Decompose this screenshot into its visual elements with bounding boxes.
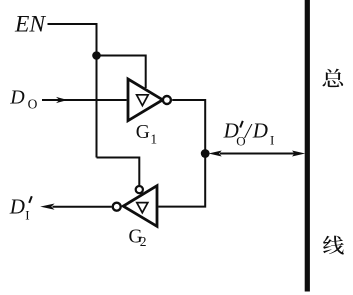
label DI' bbox=[9, 195, 32, 223]
bidirectional arrow to bus bbox=[220, 153, 295, 155]
junction EN node bbox=[92, 51, 101, 60]
svg-text:/: / bbox=[244, 119, 253, 143]
wire DO input bbox=[42, 99, 127, 101]
svg-text:I: I bbox=[25, 208, 29, 223]
G2 output bubble bbox=[113, 203, 121, 211]
label G2 bbox=[129, 226, 147, 249]
svg-text:D: D bbox=[252, 119, 268, 143]
G1 tri-state symbol bbox=[137, 95, 149, 106]
G2 tri-state symbol bbox=[137, 203, 148, 213]
wire EN to G1 enable bbox=[97, 56, 146, 89]
tri-state buffer G1 triangle bbox=[128, 79, 163, 121]
arrowhead DI output bbox=[40, 204, 54, 210]
wire EN horizontal bbox=[48, 23, 97, 25]
label bus char zong bbox=[323, 69, 344, 87]
G1 output bubble bbox=[163, 96, 171, 104]
svg-text:EN: EN bbox=[14, 12, 46, 38]
wire EN to G2 enable bbox=[97, 158, 140, 186]
svg-text:D: D bbox=[9, 195, 25, 219]
wire EN vertical bbox=[96, 23, 98, 158]
G2 enable bubble bbox=[136, 186, 143, 193]
wire G1 output bbox=[158, 100, 205, 207]
junction node DO/DI bbox=[201, 149, 210, 158]
svg-text:1: 1 bbox=[150, 131, 157, 146]
svg-text:I: I bbox=[270, 132, 274, 147]
svg-text:G: G bbox=[136, 122, 150, 143]
arrowhead DO bbox=[56, 97, 68, 103]
arrowhead left of bidirectional arrow bbox=[209, 151, 222, 157]
label DO bbox=[9, 87, 37, 112]
node label DO'/DI bbox=[223, 119, 275, 149]
svg-text:2: 2 bbox=[140, 234, 147, 249]
svg-text:D: D bbox=[9, 87, 25, 109]
label bus char xian bbox=[323, 236, 344, 255]
wire G2 output bbox=[53, 206, 112, 208]
arrowhead right of bidirectional arrow bbox=[292, 151, 305, 157]
inverting buffer G2 triangle bbox=[123, 186, 157, 227]
bus bar bbox=[305, 0, 310, 292]
label G1 bbox=[136, 122, 157, 146]
svg-text:O: O bbox=[28, 97, 38, 112]
